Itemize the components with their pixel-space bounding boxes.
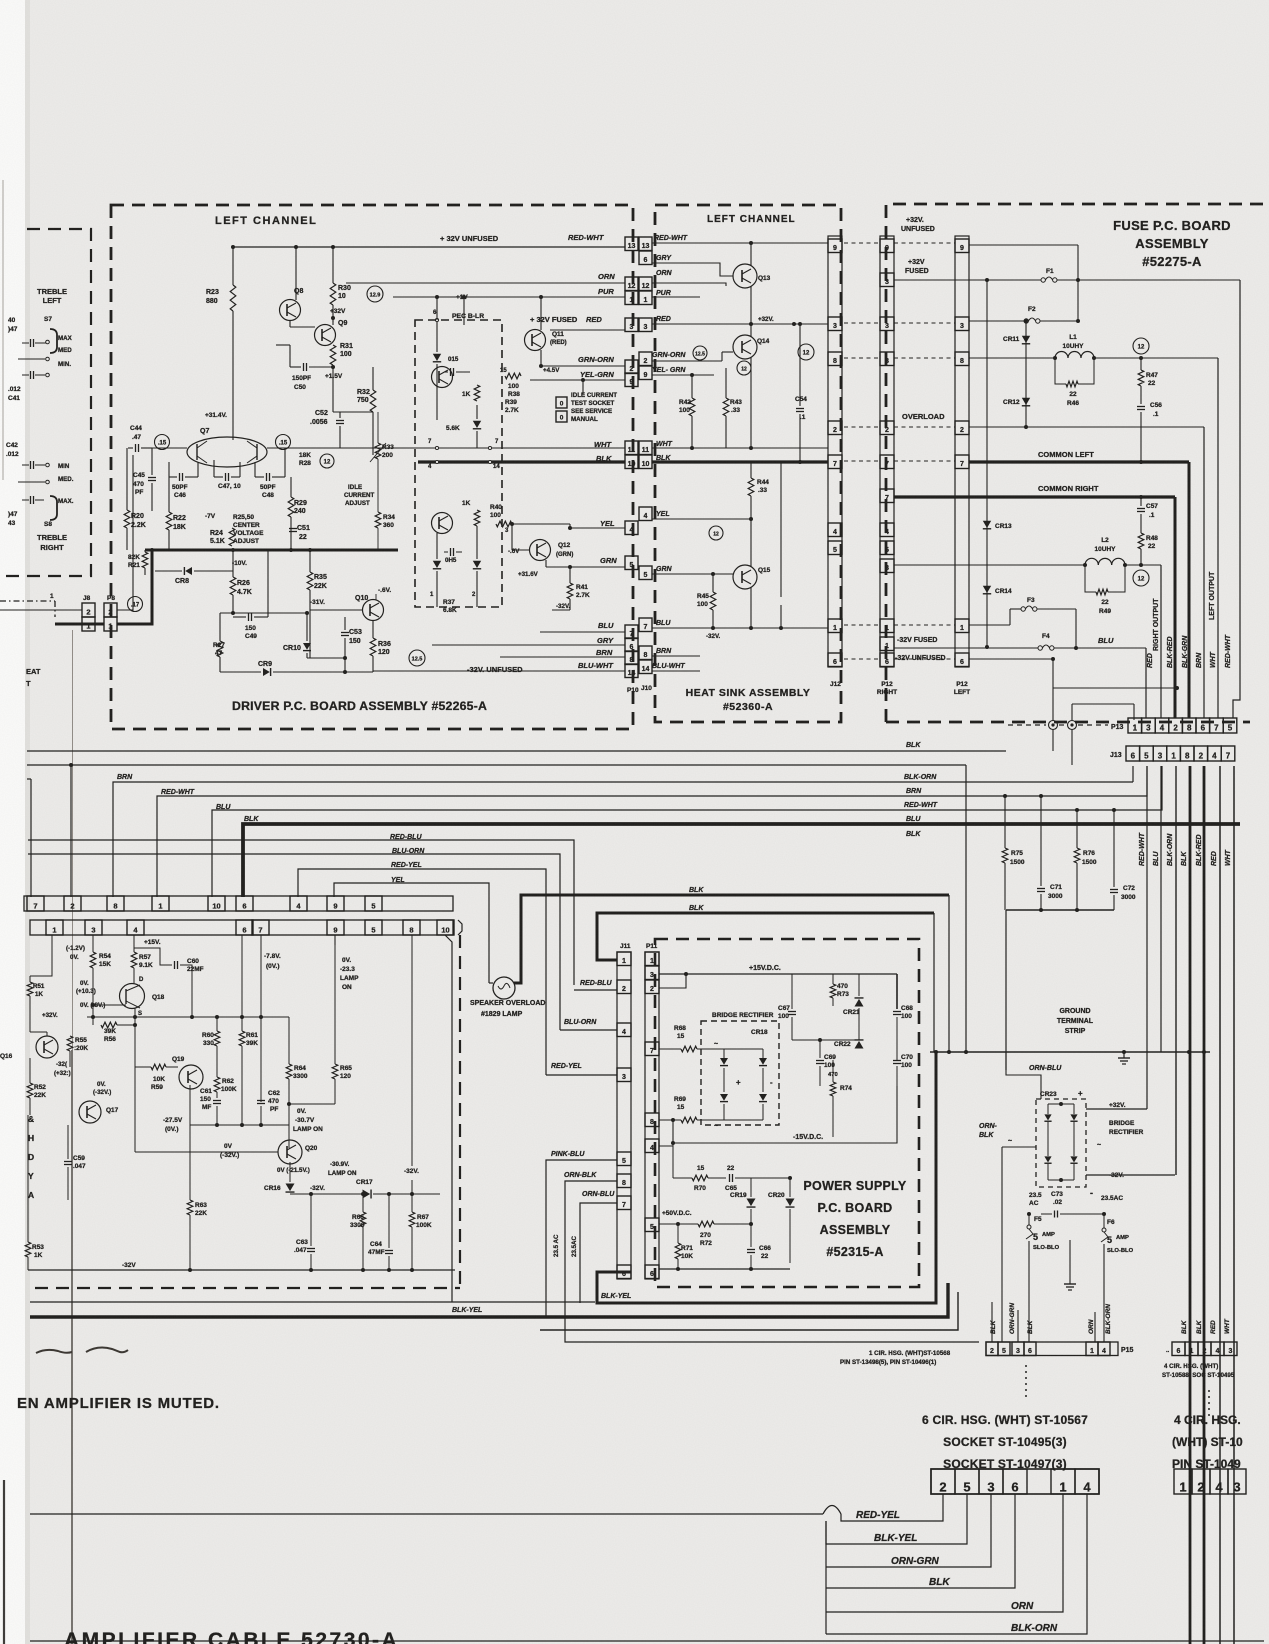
resistor 1K upper: [474, 385, 480, 401]
svg-text:.012: .012: [6, 451, 19, 458]
resistor R52: [27, 1083, 33, 1098]
wire RED-YEL into J11: [546, 1074, 617, 1076]
ground symbol terminal strip: [1123, 1052, 1125, 1058]
wire dashed link P12R-P12L: [894, 322, 955, 324]
circled 12 q7: [320, 454, 334, 468]
driver board outline (dashed): [111, 205, 633, 729]
capacitor C60: [174, 961, 176, 969]
wire pin4 stub: [659, 1145, 673, 1147]
connector strip J (upper): [24, 896, 453, 911]
inductor L2: [1085, 558, 1098, 565]
resistor R32: [370, 390, 376, 412]
resistor R30: [330, 283, 336, 305]
wire col 1189 common left: [1188, 462, 1191, 718]
resistor R67: [409, 1212, 415, 1227]
wire Q8-Q9 link: [289, 320, 291, 327]
wire p15 stub 1018: [1017, 1310, 1019, 1342]
wire +32V unfused rail: [233, 246, 625, 248]
wire q14 emitter: [750, 357, 752, 448]
wire Q7 row: [152, 447, 187, 449]
transistor Q19: [179, 1065, 203, 1089]
wire +32V row right: [1078, 279, 1240, 281]
resistor R29: [288, 497, 294, 517]
connector 6CIR row: [931, 1469, 1099, 1494]
diode D15c: [433, 561, 441, 568]
wire BLK col 934: [933, 913, 935, 1052]
wire row 704: [1072, 703, 1134, 705]
test socket boxes: [556, 397, 567, 408]
resistor R70: [692, 1175, 708, 1181]
wire c65 node: [751, 1177, 790, 1179]
resistor R55: [67, 1036, 73, 1051]
circled 12.5: [409, 650, 425, 666]
capacitor C57: [1137, 508, 1145, 510]
wire bus BRN: [113, 782, 1133, 897]
connector strip P (lower): [30, 920, 453, 935]
svg-text:)47: )47: [8, 511, 18, 518]
wire Q8 collector up: [295, 247, 297, 300]
wire bus row2: [27, 764, 966, 766]
capacitor C53: [341, 632, 349, 634]
wire +50 row: [659, 1223, 698, 1225]
wire vert 1072 below: [1071, 729, 1073, 765]
wire R30: [332, 247, 334, 283]
wire strip2 9 stub: [334, 935, 336, 945]
wire C50 left: [289, 345, 291, 367]
wire GRN-ORN row: [541, 365, 625, 367]
transistor Q15: [733, 565, 757, 589]
capacitor C61: [213, 1100, 221, 1102]
wire col 1146 BLU: [1145, 648, 1147, 718]
wire orn stub hs: [720, 283, 726, 286]
resistor R27: [217, 641, 223, 657]
zener CR21: [855, 999, 864, 1007]
resistor R31: [330, 345, 336, 365]
wire bus BLK heavy: [243, 824, 1240, 897]
wire socket stem: [582, 380, 584, 394]
capacitor C54: [796, 408, 804, 410]
fuse F3: [1021, 607, 1025, 611]
resistor 1K lower: [474, 510, 480, 526]
wire Q18 base row: [93, 1004, 126, 1006]
wire ORN-BLU row: [1006, 1052, 1041, 1099]
capacitor C46: [179, 473, 181, 481]
wire left vert 31: [30, 779, 32, 897]
resistor R24: [229, 528, 235, 546]
wire Q9 collector: [332, 318, 334, 325]
bridge diodes CR18: [720, 1058, 728, 1065]
capacitor C50: [303, 363, 305, 371]
wire vert 966: [965, 765, 967, 1052]
capacitor C66: [747, 1249, 755, 1251]
bridge CR23 diodes: [1044, 1114, 1051, 1120]
wire S col: [134, 1008, 136, 1067]
wire q15 emitter: [750, 587, 752, 628]
wire q13 emitter: [750, 286, 752, 324]
diode CR12: [1022, 398, 1030, 405]
PEC B-LR box (dashed): [415, 320, 502, 607]
wire -32V unfused: [373, 670, 625, 672]
diode CR19: [747, 1199, 756, 1207]
capacitor C56: [1137, 406, 1145, 408]
resistor R22: [166, 512, 172, 530]
pen squiggle mark: [36, 1348, 128, 1353]
capacitor C59: [64, 1161, 72, 1163]
diode D15b: [473, 421, 481, 428]
capacitor C67: [788, 1011, 796, 1013]
wire hs ORN: [652, 282, 720, 284]
wire BLK col 949: [948, 895, 950, 1052]
resistor R73: [830, 984, 836, 998]
page edge dark line top: [2, 180, 4, 480]
wire R32: [372, 367, 374, 390]
wire p15 stub 992: [991, 1302, 993, 1342]
wire dashed link P12R-P12L: [894, 460, 955, 462]
wire hs brn: [652, 655, 700, 657]
wire col49 box1: [30, 935, 52, 976]
wire dashed link P12R-P12L: [894, 242, 955, 244]
wire hs BLK heavy: [652, 460, 828, 463]
resistor R60: [214, 1031, 220, 1046]
wire rcol 1147: [1146, 766, 1148, 1109]
capacitor C63: [307, 1248, 315, 1250]
wire fuse vert 1078: [1077, 245, 1079, 321]
wire col 1161 right output: [1160, 565, 1162, 718]
wire c55 vert: [780, 462, 782, 597]
resistor R46: [1055, 358, 1066, 384]
resistor R65: [332, 1064, 338, 1079]
fet Q18: [120, 984, 145, 1009]
circled 12 L1: [1133, 338, 1149, 354]
capacitor C49: [248, 613, 250, 621]
wire q16 collector: [30, 1031, 47, 1033]
capacitor C62: [257, 1100, 265, 1102]
wire hs RED-WHT: [652, 242, 828, 244]
diode CR8: [185, 567, 192, 575]
resistor R57: [131, 952, 137, 968]
diode CR9: [263, 668, 270, 676]
wire Q12 base: [512, 549, 530, 551]
wire row 688: [1053, 687, 1177, 689]
svg-text:Q16: Q16: [0, 1053, 13, 1060]
circled 12 L2: [1133, 570, 1149, 586]
wire ORN-BLU into J11: [580, 1203, 617, 1303]
connector 4CIR row big: [1174, 1469, 1192, 1494]
wire col 1233 +32V: [1233, 280, 1240, 718]
resistor R68: [681, 1046, 697, 1052]
wire hs WHT row: [652, 447, 828, 449]
bridge CR23 box (dashed): [1036, 1099, 1086, 1187]
resistor R36: [370, 638, 376, 656]
switch contact mid S7: [18, 358, 45, 360]
wire J8 pin1 row thick: [55, 623, 104, 626]
resistor R61: [239, 1031, 245, 1046]
wire node row 412: [333, 411, 373, 413]
page edge dark line bottom: [3, 1480, 5, 1644]
fuse F2: [1024, 319, 1028, 323]
resistor R45: [710, 592, 716, 610]
diode D15a: [433, 354, 441, 361]
resistor R66: [360, 1212, 366, 1227]
wire BRN row: [500, 656, 625, 658]
wire GRN row: [546, 566, 625, 568]
wire rcol 1204: [1203, 766, 1206, 1644]
switch S8: [50, 496, 57, 520]
wire q13 base link: [700, 263, 733, 276]
wire Q10 base: [310, 609, 363, 611]
transistor Q16: [36, 1036, 58, 1058]
wire RC tie row: [1006, 909, 1114, 911]
wire pec pin6 up: [436, 297, 438, 320]
transistor Q12: [530, 540, 551, 561]
wire CR11-CR12 column: [1025, 321, 1027, 427]
paper edge shade: [25, 0, 30, 1644]
connector J13 row: [1126, 746, 1140, 761]
diode CR11: [1022, 336, 1030, 343]
wire dashed link J12-P12R: [844, 242, 879, 244]
capacitor C48: [266, 473, 268, 481]
resistor R75: [1002, 848, 1008, 863]
svg-text:C42: C42: [6, 442, 18, 449]
connector J10 column: [639, 237, 652, 251]
wire CR13-CR14 column: [986, 280, 988, 647]
wire dashdot into J8: [0, 600, 55, 602]
resistor R51: [27, 982, 33, 996]
wire ps mid row: [792, 1039, 859, 1041]
feedthrough symbol 1: [1049, 721, 1058, 730]
wire thick row 1317: [30, 1283, 948, 1317]
wire bus YEL: [334, 883, 489, 983]
resistor R34 360: [375, 512, 381, 528]
wire bus RED-BLU: [28, 840, 574, 985]
wire ORN-BLK row to bridge: [1002, 1146, 1036, 1148]
capacitor C47: [225, 473, 227, 481]
scan noise overlay: [0, 0, 1, 1]
circled 12 hs3: [709, 526, 723, 540]
resistor R23: [230, 285, 236, 311]
wire OVERLOAD row: [969, 426, 1204, 428]
wire BLK heavy: [418, 460, 625, 463]
resistor R76: [1074, 848, 1080, 863]
transistor pec lower: [432, 513, 453, 534]
svg-text:.012: .012: [8, 386, 21, 393]
diode CR20: [786, 1199, 795, 1207]
wire rcol 1189: [1189, 766, 1192, 1644]
wire R26 R27 node: [220, 612, 307, 614]
wire bus BLK row1: [27, 750, 1006, 752]
resistor R26: [230, 577, 236, 595]
capacitor C69: [816, 1060, 824, 1062]
wire ORN: [346, 282, 625, 284]
wire dashed link P12R-P12L: [894, 357, 955, 359]
capacitor C52: [336, 420, 344, 422]
transistor Q10: [363, 600, 384, 621]
wire hs GRN row: [652, 573, 733, 575]
wire ORN-BLK into J11: [565, 1181, 979, 1342]
wire BLU-ORN into J11: [560, 1029, 617, 1031]
transistor Q11: [525, 330, 546, 351]
wire bottom left verts: [825, 1521, 827, 1634]
resistor R62: [214, 1077, 220, 1092]
wire cap row verticals: [168, 462, 170, 477]
wire r70 feed: [672, 1143, 674, 1178]
wire col242 box6: [241, 935, 243, 1017]
wire p15 stub 1095: [1094, 1312, 1096, 1342]
wire cr16-cr17 row: [290, 1193, 361, 1195]
wire L1 row: [969, 357, 1055, 359]
wire BLU row: [540, 631, 625, 633]
resistor R48: [1138, 533, 1144, 549]
diode D15d: [473, 561, 481, 568]
capacitor C44: [135, 444, 137, 452]
fuse F4: [1038, 646, 1042, 650]
wire col412 box8: [411, 935, 413, 1166]
wire PUR: [393, 296, 625, 298]
wire J8 pin2 row: [0, 609, 82, 611]
connector J12 column: [828, 239, 842, 253]
wire rcol 1232: [1233, 766, 1235, 1644]
wire q20 base: [135, 1151, 278, 1153]
svg-text:C41: C41: [8, 395, 20, 402]
wire BLK bottom: [826, 1494, 1015, 1588]
capacitor C41: [30, 371, 32, 379]
connector P13 row: [1128, 718, 1142, 733]
resistor R71: [675, 1243, 681, 1259]
diode CR13: [983, 521, 991, 528]
wire hs BLU row: [652, 627, 828, 629]
resistor R40 100: [496, 521, 512, 527]
resistor R69: [681, 1117, 697, 1123]
capacitor C72: [1110, 889, 1118, 891]
transistor Q14: [733, 335, 757, 359]
wire pec bottom: [436, 590, 438, 607]
wire BLK to lamp: [514, 895, 949, 983]
wire PUR +1V rail link: [540, 297, 542, 330]
wire BLK to J11 pin1: [597, 913, 934, 960]
connector P12 RIGHT column: [880, 236, 894, 667]
wire BLK-YEL bottom: [826, 1494, 967, 1544]
wire rcol 1175: [1175, 766, 1177, 1175]
connector P10 column: [625, 237, 638, 251]
wire bus RED-YEL: [298, 869, 546, 1075]
resistor R35: [307, 572, 313, 590]
circled .15 right: [276, 435, 291, 450]
wire PINK-BLU into J11: [546, 1160, 617, 1317]
capacitor C42: [30, 461, 32, 469]
wire hs YEL-GRN: [652, 374, 714, 376]
wire col 1218 L1: [1217, 358, 1219, 718]
wire dashed link P12R-P12L: [894, 658, 955, 660]
wire bus RED-WHT: [157, 766, 1147, 897]
heatsink board outline (dashed): [655, 205, 841, 722]
capacitor C71: [1037, 888, 1045, 890]
power supply outline (dashed): [655, 939, 919, 1287]
wire dotted below 4cir: [1208, 1390, 1210, 1420]
capacitor C40: [30, 339, 32, 347]
svg-text:40: 40: [8, 317, 16, 324]
capacitor O15 lower: [450, 548, 452, 556]
capacitor C43: [30, 496, 32, 504]
wire COMMON RIGHT heavy: [894, 495, 1175, 498]
wire dashed link J12-P12R: [844, 624, 879, 626]
wire bus BLU: [212, 766, 1162, 897]
transistor Q9: [315, 325, 336, 346]
wire +32V from bridge: [1086, 1108, 1147, 1110]
inductor L1: [1055, 352, 1068, 359]
wire RED-BLU into J11: [574, 989, 617, 991]
wire thick J11 pin6 out: [597, 1052, 936, 1303]
wire ground bus row: [930, 1051, 1210, 1053]
capacitor C68: [893, 1011, 901, 1013]
wire vert 1053 to bus: [1052, 659, 1054, 721]
wire hs GRY: [652, 262, 700, 264]
wire q13 collector: [750, 243, 752, 266]
wire hop arc: [823, 1506, 841, 1515]
wire dashed link J12-P12R: [844, 322, 879, 324]
wire dashed link P12R-P12L: [894, 426, 955, 428]
wire r64 r65 tie: [289, 1103, 335, 1105]
wire hs YEL: [652, 518, 751, 520]
wire heavy mid rail: [145, 549, 398, 552]
capacitor C45: [148, 477, 156, 479]
wire Q9 emitter down: [332, 365, 334, 367]
wire hs bluwht: [652, 670, 700, 672]
resistor R74: [830, 1082, 836, 1096]
transistor Q8: [280, 300, 301, 321]
fuse board outline (dashed): [886, 204, 1269, 722]
diode CR17 zener: [363, 1190, 371, 1199]
connector J11 column: [617, 952, 631, 1279]
wire dashed to P13: [1008, 724, 1046, 726]
wire -15VDC row: [673, 1086, 897, 1143]
transistor pec upper: [432, 367, 453, 388]
wire P8 pin1 thick to driver: [117, 550, 152, 624]
wire amp bottom rail: [28, 1269, 455, 1271]
tone board outline (dashed): [0, 229, 91, 576]
wire bus BLU-ORN: [28, 854, 560, 1030]
wire col 1175 common right: [1174, 497, 1177, 718]
fuse F1: [1041, 278, 1045, 282]
capacitor C64: [385, 1250, 393, 1252]
svg-text:)47: )47: [8, 326, 18, 333]
wire row 1330: [540, 1292, 958, 1330]
connector P11 column: [645, 952, 659, 1279]
resistor R72: [698, 1221, 714, 1227]
capacitor O15 upper: [450, 368, 452, 376]
circled 12.5 hs: [693, 346, 707, 360]
wire L2 row: [894, 564, 1085, 566]
wire q15 collector: [750, 519, 752, 567]
circled 12 hs2: [737, 361, 751, 375]
capacitor C73: [1054, 1211, 1056, 1218]
wire R23 top: [232, 247, 234, 285]
wire +32V fused row: [550, 329, 625, 331]
wire thin row 1302: [30, 1301, 595, 1303]
wire ps bottom row: [659, 1268, 790, 1270]
wire +15VDC row: [659, 973, 897, 975]
wire bottom node: [307, 657, 345, 659]
wire P8 pin2 to C44: [117, 455, 133, 610]
resistor R54: [90, 952, 96, 968]
diode CR16: [286, 1184, 295, 1192]
switch contact mid S8: [18, 481, 45, 483]
wire dashed link J12-P12R: [844, 658, 879, 660]
wire dashed link J12-P12R: [844, 426, 879, 428]
speaker overload lamp: [493, 977, 515, 999]
capacitor C70: [893, 1060, 901, 1062]
wire dashed link P12R-P12L: [894, 624, 955, 626]
bridge rectifier box (dashed): [701, 1021, 779, 1125]
